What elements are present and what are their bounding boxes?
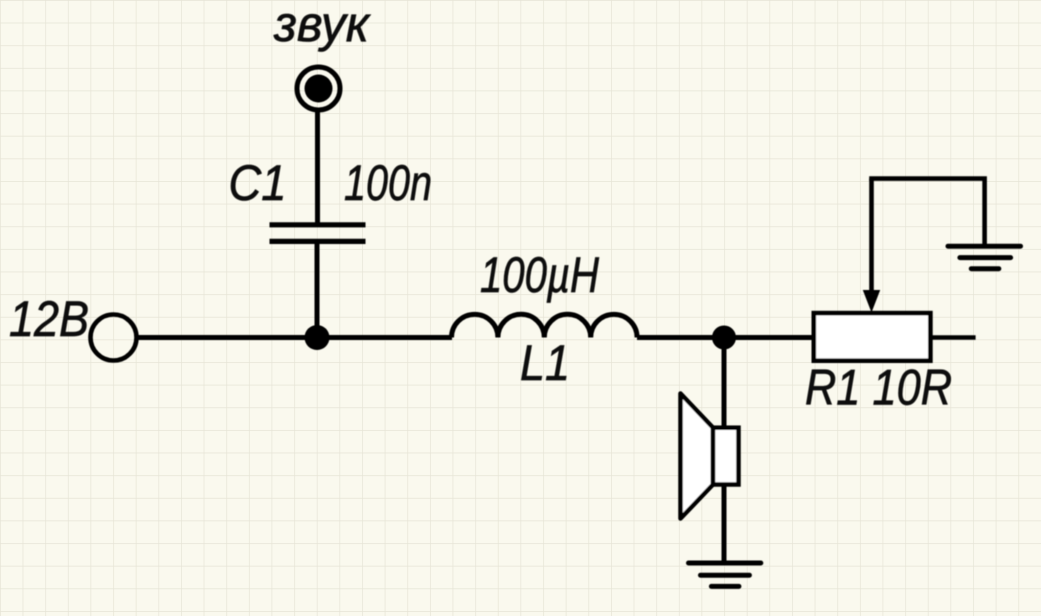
- wire 12В to L1 (through node A): [138, 335, 452, 340]
- resistor R1: [814, 313, 931, 361]
- capacitor C1: [270, 225, 366, 242]
- node A junction: [305, 325, 330, 350]
- ground (speaker): [689, 563, 761, 586]
- wire L1 to R1 (through node B): [637, 335, 816, 340]
- speaker LS1: [681, 394, 739, 519]
- svg-text:12В: 12В: [9, 291, 89, 347]
- terminal X1 звук: [297, 67, 340, 110]
- wiper arrow of R1: [863, 179, 880, 313]
- svg-text:100n: 100n: [344, 155, 432, 211]
- wire node B to speaker: [722, 338, 727, 431]
- ground (top right): [948, 246, 1021, 269]
- wire wiper to ground: [869, 179, 984, 246]
- svg-text:R1 10R: R1 10R: [805, 360, 952, 416]
- svg-text:L1: L1: [520, 335, 570, 391]
- wire C1 to node A: [315, 243, 320, 338]
- node B junction: [712, 326, 736, 350]
- svg-text:C1: C1: [229, 155, 287, 211]
- svg-text:звук: звук: [273, 0, 371, 52]
- terminal 12В: [91, 315, 137, 361]
- inductor L1: [452, 314, 638, 337]
- wire R1 right lead: [930, 335, 975, 340]
- wire speaker to ground: [722, 484, 727, 565]
- svg-text:100µH: 100µH: [480, 247, 600, 303]
- wire звук to C1: [315, 110, 320, 226]
